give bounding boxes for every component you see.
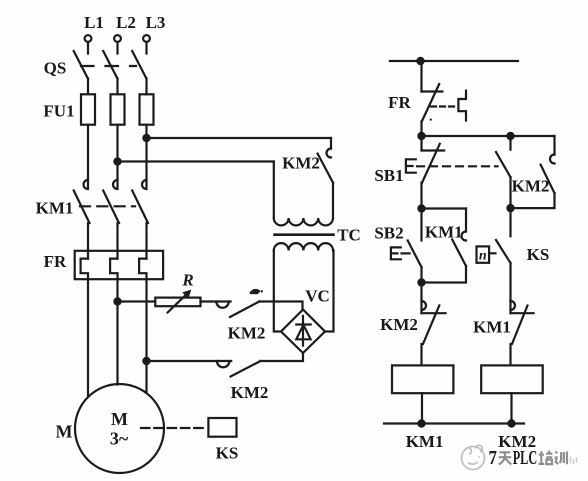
wire to KM1 hold branch [422, 207, 467, 209]
contact KM2 (NC interlock left) [422, 283, 446, 366]
fuse FU1 phase1 [81, 94, 95, 180]
node phase2 brake tap [114, 298, 120, 304]
svg-text:FR: FR [44, 252, 67, 271]
FR trip symbol [458, 91, 466, 121]
contactor KM1 main pole 3 [132, 180, 148, 259]
FR heater phase3 [139, 259, 146, 393]
contactor KM1 main pole 1 [74, 180, 90, 259]
QS linkage dashed [81, 65, 136, 67]
wire rail 2 [422, 135, 555, 137]
svg-text:M: M [56, 422, 73, 442]
svg-text:KM1: KM1 [425, 223, 463, 242]
diode inside VC [296, 316, 310, 346]
switch QS pole 2 [103, 51, 117, 94]
node bottom rail left [418, 420, 424, 426]
wire L1 drop [87, 42, 89, 54]
wire L2 drop [116, 42, 118, 54]
fuse FU1 phase3 [140, 94, 154, 180]
contactor KM1 main pole 2 [103, 180, 119, 259]
svg-text:KM1: KM1 [406, 432, 444, 451]
transformer TC core [275, 233, 334, 236]
svg-text:TC: TC [337, 226, 361, 245]
wire bottom rail [384, 422, 524, 424]
contact SB1 linked (NO right) [496, 136, 511, 208]
node SB2 bottom junction [418, 279, 424, 285]
contact FR (NC, control) [422, 61, 443, 136]
svg-text:KM1: KM1 [473, 318, 511, 337]
node L3 [143, 13, 165, 42]
node phase3 brake tap [143, 358, 149, 364]
node right branch junction [507, 205, 513, 211]
watermark text [489, 447, 577, 469]
coil KM2 [481, 365, 543, 393]
contact KM2 (brake, lower) [147, 353, 304, 377]
wire coil KM1 to rail [421, 393, 423, 423]
node rail2 left [418, 133, 424, 139]
svg-text:SB2: SB2 [374, 224, 403, 243]
dashed shaft link to KS [141, 427, 208, 429]
contact KM1 (NC interlock right) [511, 301, 534, 365]
switch QS pole 1 [74, 51, 88, 94]
FR heater phase2 [110, 259, 117, 385]
svg-text:VC: VC [305, 287, 330, 306]
node SB1 bottom junction [418, 205, 424, 211]
wire L3 drop [145, 42, 147, 54]
svg-text:7: 7 [489, 447, 498, 469]
fuse FU1 phase2 [111, 94, 125, 180]
contact KM2 (self hold right) [511, 136, 555, 208]
svg-text:KM2: KM2 [228, 324, 266, 343]
wire top rail [390, 60, 518, 62]
SB1 actuator E [406, 159, 416, 172]
svg-text:L1: L1 [84, 13, 104, 32]
KM1 linkage dashed [80, 205, 135, 207]
SB2 actuator E [391, 247, 401, 259]
svg-text:FR: FR [388, 93, 411, 112]
node tap phase3 to control [143, 135, 149, 141]
svg-text:L3: L3 [146, 13, 166, 32]
svg-text:KM2: KM2 [380, 315, 418, 334]
wire coil KM2 to rail [510, 393, 512, 423]
svg-text:QS: QS [44, 59, 67, 78]
FR trip linkage dashed [431, 105, 455, 107]
contact KS (speed relay) [496, 208, 511, 301]
button SB2 (NO start) [408, 209, 422, 283]
node top rail junction [417, 58, 423, 64]
wire control feed lower [118, 160, 274, 162]
node bottom rail right [508, 420, 514, 426]
svg-text:L2: L2 [116, 13, 136, 32]
node rail2 right [507, 133, 513, 139]
svg-text:SB1: SB1 [374, 166, 403, 185]
svg-text:R: R [181, 271, 193, 290]
contact KM1 (self hold) [422, 209, 467, 283]
svg-text:KM1: KM1 [36, 199, 74, 218]
svg-text:3~: 3~ [110, 429, 129, 449]
svg-text:FU1: FU1 [43, 102, 74, 121]
node L2 [114, 13, 136, 42]
svg-text:PLC: PLC [513, 447, 538, 469]
svg-text:KM2: KM2 [231, 383, 269, 402]
svg-text:n: n [479, 249, 487, 264]
switch QS pole 3 [132, 51, 146, 94]
svg-text:KS: KS [527, 245, 550, 264]
coil KM1 [392, 365, 453, 393]
motor M circle [75, 384, 164, 473]
transformer TC secondary [274, 243, 334, 331]
node tap phase2 to control [114, 158, 120, 164]
contact KM2 (transformer feed) [318, 138, 333, 218]
KS sensor box n [477, 246, 496, 263]
speed relay KS box [208, 418, 236, 437]
FR heater phase1 [81, 259, 88, 397]
svg-text:KM2: KM2 [512, 177, 550, 196]
resistor R [118, 290, 231, 312]
rectifier VC diamond [281, 310, 325, 354]
node L1 [84, 13, 104, 42]
svg-text:KS: KS [216, 444, 239, 463]
svg-text:KM2: KM2 [282, 154, 320, 173]
watermark logo [462, 445, 485, 469]
SB1 linkage dashed [417, 165, 498, 167]
SB2 dash [402, 252, 410, 254]
transformer TC primary [274, 162, 333, 226]
svg-text:M: M [111, 409, 128, 429]
contact KM2 (brake, upper) [216, 290, 302, 317]
wire control feed upper [147, 137, 332, 139]
thermal relay FR box [75, 251, 163, 279]
button SB1 (NC stop) [422, 136, 445, 209]
